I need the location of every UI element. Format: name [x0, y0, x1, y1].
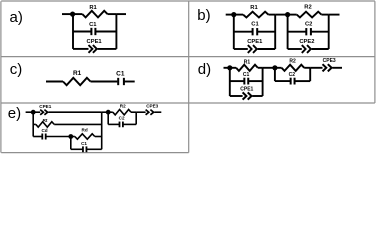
wire	[26, 111, 34, 113]
svg-text:C2: C2	[119, 116, 125, 121]
label C2	[305, 22, 312, 28]
label R2	[304, 5, 311, 11]
label C1	[89, 22, 97, 28]
constant phase element CPE1	[230, 92, 263, 99]
svg-text:C1: C1	[251, 22, 259, 28]
label C1	[81, 141, 87, 146]
label R1	[250, 5, 258, 11]
wire	[274, 15, 276, 49]
wire	[262, 68, 264, 96]
label C2	[289, 72, 296, 78]
capacitor C2	[108, 122, 136, 128]
wire	[224, 67, 230, 69]
wire	[328, 15, 330, 49]
node (junction 1)	[231, 12, 236, 17]
wire	[275, 14, 287, 16]
label CPE1	[39, 104, 51, 109]
label Cd	[41, 128, 47, 133]
svg-text:Rt: Rt	[43, 118, 48, 123]
wire	[102, 111, 109, 113]
label R2	[120, 104, 126, 109]
wire	[70, 137, 72, 150]
resistor R1	[230, 65, 263, 71]
node (left junction)	[70, 12, 75, 17]
wire	[135, 112, 137, 124]
svg-text:CPE1: CPE1	[240, 86, 253, 92]
label C2	[119, 116, 125, 121]
resistor R2	[108, 110, 136, 115]
wire	[329, 14, 340, 16]
constant phase element CPE3	[136, 110, 161, 115]
wire	[229, 68, 231, 96]
resistor R1	[73, 11, 116, 18]
node (junction 2)	[272, 65, 277, 70]
node (left junction)	[31, 110, 36, 115]
wire	[233, 15, 235, 49]
svg-text:C1: C1	[243, 72, 250, 78]
capacitor C1	[230, 78, 263, 85]
svg-text:C1: C1	[81, 141, 87, 146]
svg-text:CPE1: CPE1	[39, 104, 51, 109]
resistor Rd	[71, 134, 102, 139]
label C1	[243, 72, 250, 78]
resistor Rt	[33, 122, 102, 127]
label Rt	[43, 118, 48, 123]
svg-text:C1: C1	[89, 22, 97, 28]
capacitor C1	[117, 78, 135, 85]
wire	[309, 68, 311, 81]
resistor R2	[288, 12, 329, 18]
label CPE3	[146, 103, 158, 108]
resistor R1	[46, 78, 117, 85]
node (right junction)	[106, 110, 111, 115]
wire	[62, 13, 73, 15]
wire	[287, 15, 289, 49]
svg-text:R1: R1	[244, 59, 251, 65]
constant phase element CPE1	[73, 45, 116, 53]
wire	[116, 13, 126, 15]
resistor R2	[275, 65, 310, 71]
capacitor C1	[71, 146, 102, 152]
resistor R1	[234, 12, 275, 18]
svg-text:C1: C1	[116, 70, 125, 77]
svg-text:d): d)	[198, 61, 211, 78]
svg-text:R1: R1	[73, 70, 82, 77]
wire	[101, 112, 103, 149]
constant phase element CPE2	[288, 45, 329, 53]
node (junction 1)	[227, 65, 232, 70]
wire	[226, 14, 234, 16]
svg-text:CPE1: CPE1	[87, 39, 103, 45]
label CPE1	[240, 86, 253, 92]
svg-text:CPE1: CPE1	[247, 39, 263, 45]
svg-text:c): c)	[10, 61, 22, 78]
capacitor Cd	[33, 134, 71, 140]
svg-text:R2: R2	[120, 104, 126, 109]
label R1	[73, 70, 82, 77]
node (junction 2)	[285, 12, 290, 17]
svg-text:CPE3: CPE3	[146, 103, 158, 108]
panel label b	[197, 7, 210, 24]
capacitor C1	[73, 28, 116, 35]
svg-text:CPE3: CPE3	[323, 58, 336, 64]
panel label e	[8, 105, 21, 122]
svg-text:R1: R1	[89, 5, 97, 11]
node (middle junction)	[68, 134, 73, 139]
label CPE1	[87, 39, 103, 45]
constant phase element CPE1	[33, 110, 102, 115]
capacitor C2	[275, 78, 310, 85]
svg-text:Cd: Cd	[41, 128, 47, 133]
wire	[115, 14, 117, 49]
constant phase element CPE3	[310, 64, 342, 71]
svg-text:a): a)	[10, 9, 23, 26]
svg-text:b): b)	[197, 7, 210, 24]
label R1	[244, 59, 251, 65]
wire	[107, 112, 109, 124]
wire	[32, 112, 34, 136]
svg-text:e): e)	[8, 105, 21, 122]
wire	[72, 14, 74, 49]
svg-text:R2: R2	[304, 5, 311, 11]
panel label a	[10, 9, 23, 26]
label C1	[116, 70, 125, 77]
label R2	[289, 59, 296, 65]
label CPE2	[299, 39, 314, 45]
svg-text:R2: R2	[289, 59, 296, 65]
svg-text:C2: C2	[305, 22, 312, 28]
svg-text:C2: C2	[289, 72, 296, 78]
wire	[263, 67, 275, 69]
capacitor C1	[234, 28, 275, 35]
label CPE3	[323, 58, 336, 64]
label Rd	[82, 128, 88, 133]
svg-text:CPE2: CPE2	[299, 39, 314, 45]
svg-text:R1: R1	[250, 5, 258, 11]
label C1	[251, 22, 259, 28]
panel label d	[198, 61, 211, 78]
wire	[274, 68, 276, 81]
svg-text:Rd: Rd	[82, 128, 88, 133]
constant phase element CPE1	[234, 45, 275, 53]
label R1	[89, 5, 97, 11]
label CPE1	[247, 39, 263, 45]
capacitor C2	[288, 28, 329, 35]
panel label c	[10, 61, 22, 78]
